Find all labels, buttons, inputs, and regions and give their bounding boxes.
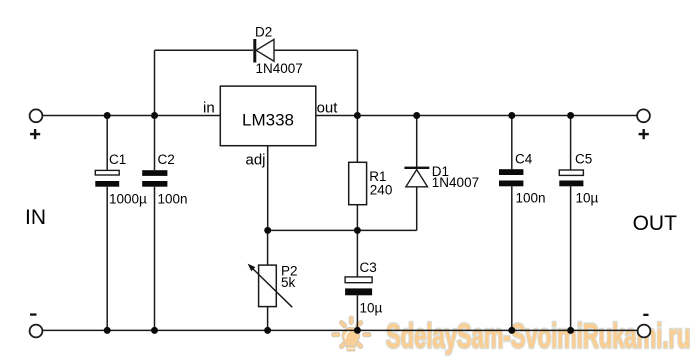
wire P2 upper lead (267, 230, 269, 265)
wire C2 lower lead (154, 187, 156, 331)
capacitor C1 (95, 170, 119, 186)
resistor R1 (349, 162, 367, 204)
wire D1 upper lead (416, 116, 418, 168)
minus sign input (30, 313, 37, 315)
wire C2 upper lead (154, 116, 156, 171)
plus sign output (639, 129, 649, 139)
junction node D1 top (413, 112, 420, 119)
svg-text:adj: adj (246, 151, 266, 168)
svg-text:100n: 100n (516, 190, 546, 205)
svg-text:out: out (317, 99, 339, 116)
wire C4 lower lead (511, 186, 513, 330)
capacitor C4 (499, 169, 523, 186)
junction node out/R1 (354, 112, 361, 119)
junction node C5 top (567, 112, 574, 119)
svg-text:D2: D2 (255, 25, 272, 40)
potentiometer P2 (248, 264, 293, 308)
junction node C5 bottom (567, 327, 574, 334)
svg-text:C5: C5 (575, 152, 592, 167)
wire riser right of D2 bypass (357, 50, 359, 115)
wire top rail right (LM338 out to output +) (316, 115, 637, 117)
svg-text:LM338: LM338 (242, 111, 294, 130)
minus sign output (643, 314, 648, 316)
watermark bulb icon (332, 316, 372, 351)
terminal output - (638, 325, 651, 338)
svg-text:IN: IN (25, 206, 46, 229)
op-amp-style box U1 LM338 regulator (220, 86, 315, 146)
diode D1 (404, 167, 429, 187)
wire D1 lower lead (416, 187, 418, 231)
svg-text:10µ: 10µ (576, 190, 599, 205)
junction node R1 bottom/C3 (354, 227, 361, 234)
svg-text:in: in (203, 99, 215, 116)
watermark SdelaySam-SvoimiRukami.ru (332, 316, 691, 356)
diode D2 (253, 39, 274, 63)
svg-text:C4: C4 (515, 152, 533, 167)
wire bypass top right segment (274, 49, 358, 51)
svg-text:C3: C3 (360, 260, 377, 275)
wire bottom rail (43, 329, 638, 331)
wire P2 lower lead (267, 307, 269, 331)
svg-text:1000µ: 1000µ (109, 192, 147, 207)
junction node C2 top (151, 112, 158, 119)
svg-text:10µ: 10µ (360, 300, 383, 315)
wire C1 upper lead (106, 116, 108, 171)
svg-text:C2: C2 (158, 152, 175, 167)
junction node C1 top (104, 112, 111, 119)
junction node C2 bottom (151, 327, 158, 334)
junction node C3 bottom (354, 327, 361, 334)
wire bypass top left segment (155, 49, 254, 51)
junction node P2 bottom (264, 327, 271, 334)
plus sign input (30, 129, 40, 139)
capacitor C3 (345, 277, 372, 295)
wire C3 upper lead (356, 230, 358, 276)
wire C3 lower lead (356, 295, 358, 330)
wire riser left of D2 bypass (154, 50, 156, 115)
junction node C4 top (508, 112, 515, 119)
junction node adj/P2 (264, 227, 271, 234)
terminal output + (637, 109, 650, 122)
wire C5 upper lead (570, 116, 572, 170)
svg-text:OUT: OUT (633, 212, 678, 235)
terminal input - (30, 325, 43, 338)
svg-text:100n: 100n (158, 192, 188, 207)
svg-text:C1: C1 (109, 152, 126, 167)
wire top rail left (input + to LM338 in) (43, 115, 221, 117)
svg-text:1N4007: 1N4007 (432, 175, 479, 190)
wire adj horizontal rail (268, 229, 417, 231)
svg-text:1N4007: 1N4007 (256, 61, 303, 76)
wire C4 upper lead (511, 116, 513, 170)
junction node C1 bottom (104, 327, 111, 334)
terminal input + (30, 109, 43, 122)
capacitor C2 (142, 170, 167, 187)
wire C1 lower lead (106, 187, 108, 331)
wire C5 lower lead (570, 186, 572, 330)
wire R1 upper lead (356, 116, 358, 163)
capacitor C5 (559, 170, 583, 186)
svg-text:240: 240 (370, 182, 393, 197)
svg-text:5k: 5k (281, 275, 296, 290)
wire adj pin drop (267, 146, 269, 231)
wire R1 lower lead (356, 205, 358, 231)
junction node C4 bottom (508, 327, 515, 334)
